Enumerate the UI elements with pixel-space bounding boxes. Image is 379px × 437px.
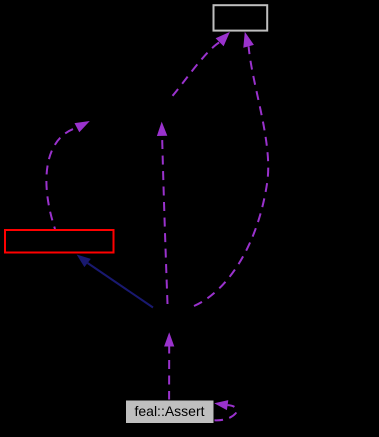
edge C: dashed arrow from hidden node to top box — [173, 42, 220, 96]
edge A: dashed usage arrow from red box up to hidden node — [46, 128, 77, 229]
arrowhead of edge D — [243, 32, 254, 48]
edge F: dashed arrow from feal::Assert up to center hidden node — [168, 347, 170, 401]
edge E: solid inheritance arrow from center hidden node to red box — [88, 263, 153, 308]
node: feal::Assert (grey box with label) — [126, 400, 215, 424]
arrowhead of edge B — [157, 122, 167, 136]
node: top truncated box (grey border, empty) — [214, 5, 268, 30]
arrowhead of edge C — [216, 32, 230, 46]
arrowhead of edge G — [214, 400, 228, 410]
edge B: long dashed vertical arrow from center hidden node up to hidden node — [162, 136, 167, 304]
node: red truncated box (red border, empty) — [5, 230, 114, 253]
edge G: dashed self-loop on feal::Assert — [214, 405, 237, 420]
arrowhead of edge F — [164, 332, 174, 346]
arrowhead of edge E — [77, 255, 91, 268]
arrowhead of edge A — [75, 121, 90, 132]
svg-text:feal::Assert: feal::Assert — [134, 403, 204, 419]
edge D: long dashed curve from center hidden node to top box — [194, 46, 268, 306]
